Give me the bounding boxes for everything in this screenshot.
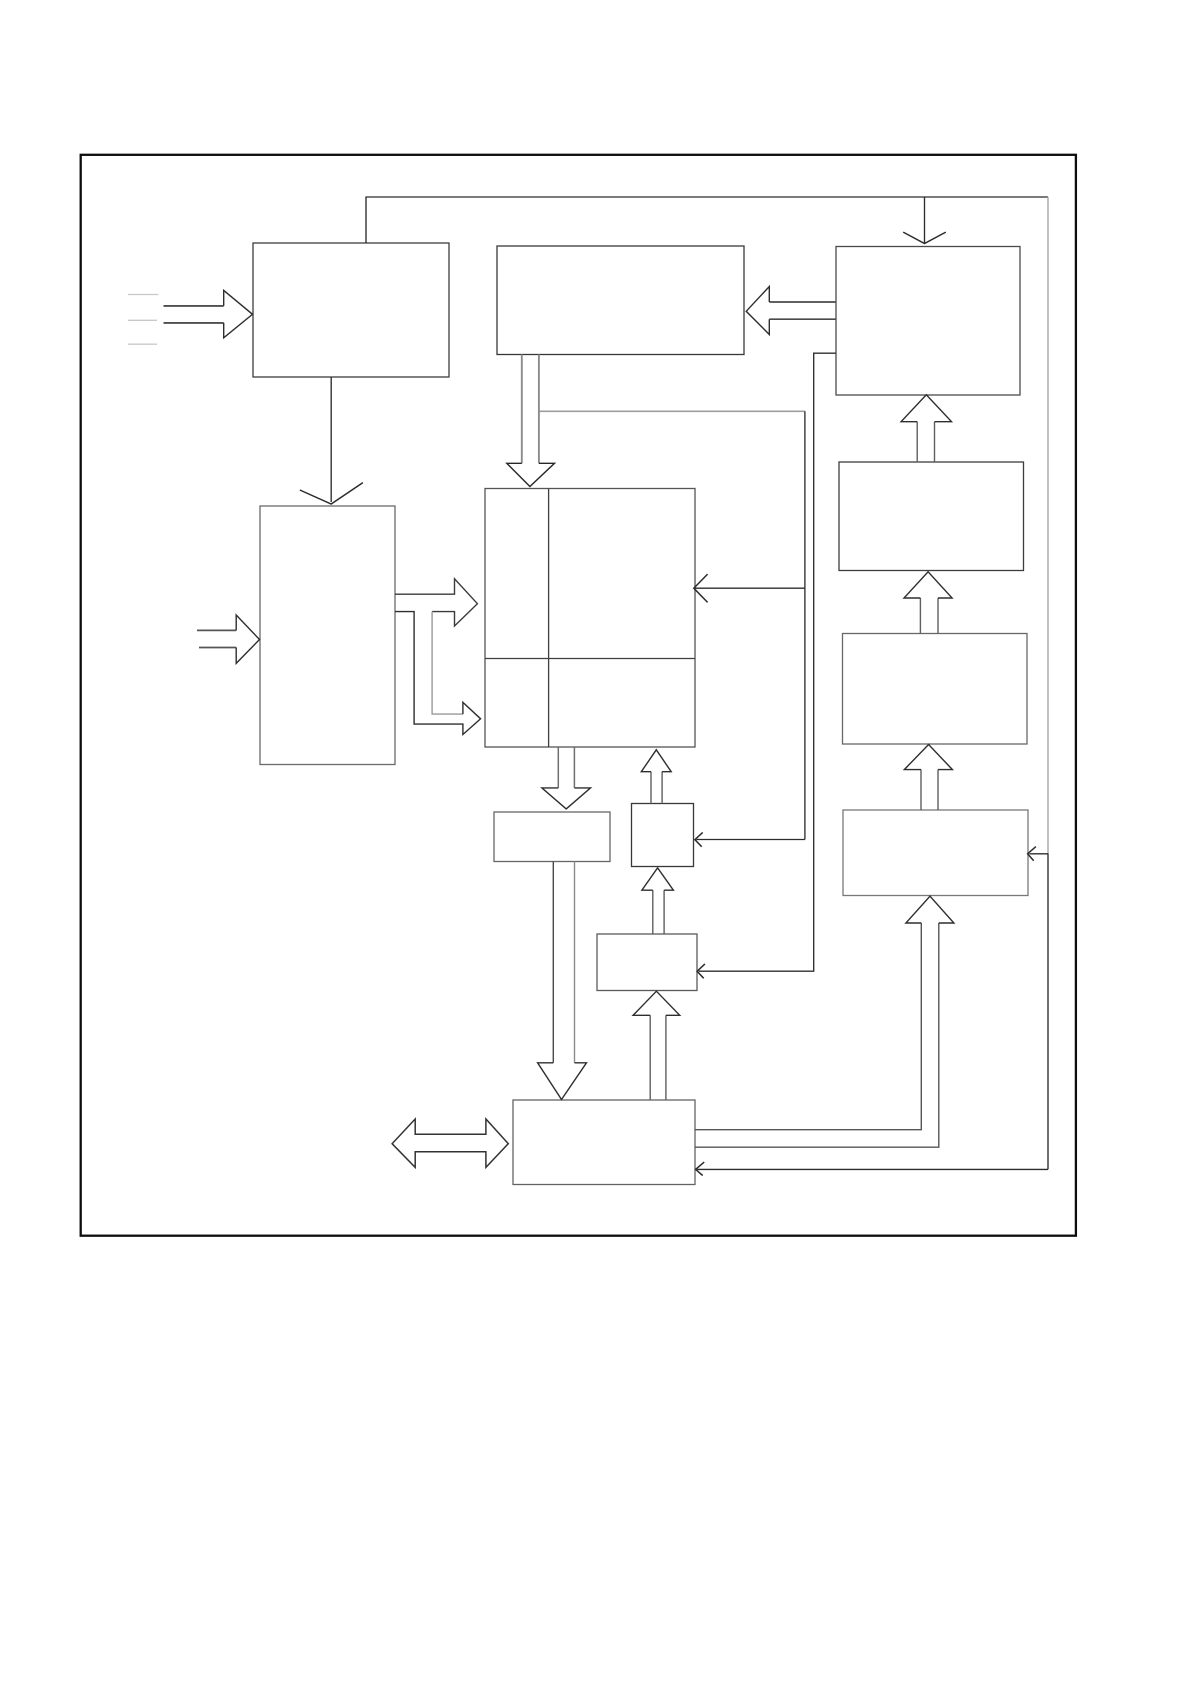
arrow A8 shaft BC up to BB (653, 890, 664, 934)
arrowhead into BC right (697, 964, 705, 978)
arrow A15 head into BD top (538, 1063, 587, 1100)
arrow A5 inner gray duct (432, 612, 463, 715)
wire W4 right feedback lower dark (1047, 853, 1049, 1169)
arrow A9 shaft BD up to BC (650, 1015, 666, 1100)
arrow A3 shaft B3 to B2 (769, 302, 836, 319)
block B5 horizontal divider (485, 658, 695, 660)
arrowhead into B5 right (694, 574, 708, 602)
border frame (81, 155, 1076, 1236)
block B2 top-middle (497, 246, 744, 355)
arrow A3 head into B2 (746, 287, 769, 335)
arrow A10 head into B3 bottom (901, 395, 951, 422)
block BA small (494, 812, 610, 862)
arrowhead into B4 top (300, 483, 363, 504)
block B4 tall-left (260, 506, 395, 765)
wire W2 drop into B3 top (924, 197, 926, 243)
input stub line 3 (128, 343, 157, 345)
block R4 right column (843, 810, 1028, 896)
block B3 top-right (836, 247, 1020, 396)
arrow A4 shaft B2 down to B5 (522, 355, 539, 464)
arrow A5 lower head and outer duct (395, 612, 481, 735)
block B5 vertical divider (548, 489, 550, 748)
arrow A11 head into R2 bottom (904, 572, 952, 598)
arrow A14 double-headed at BD left (392, 1119, 508, 1167)
arrow A7 shaft BB up to B5 (651, 772, 662, 804)
arrow A10 shaft R2 up to B3 (917, 422, 934, 462)
arrow A1 shaft into B1 (164, 306, 224, 323)
arrow A13 duct BD to R4 (695, 923, 939, 1147)
wire W5 branch into R4 (1030, 853, 1049, 855)
arrow A13 head into R4 bottom (906, 896, 954, 923)
input stub line 1 (128, 294, 159, 296)
wire W1 B1 top feedback across top (366, 197, 1048, 243)
wire W10 mid vertical (804, 411, 806, 839)
arrowhead into B3 top (903, 232, 946, 243)
arrowhead into BB right (695, 832, 703, 846)
arrow A2 shaft into B4 (197, 630, 236, 647)
block BB small (632, 804, 694, 867)
arrowhead into R4 right (1028, 847, 1036, 861)
arrow A1 head into B1 (224, 290, 253, 337)
arrow A5 branching B4 to B5 upper part (395, 579, 477, 626)
arrow A9 head into BC bottom (633, 991, 680, 1015)
input stub line 2 (128, 319, 157, 321)
block B5 central quad (485, 489, 695, 748)
arrow A2 head into B4 (236, 615, 259, 663)
block BD bottom (513, 1100, 695, 1185)
block R2 right column (839, 462, 1024, 571)
arrow A11 shaft R3 up to R2 (920, 598, 938, 634)
block R3 right column (843, 634, 1028, 745)
wire W9 gray tap from A4 shaft (539, 410, 805, 412)
arrow A6 head into BA top (542, 788, 591, 809)
wire W3 right feedback upper gray (1047, 197, 1049, 853)
arrow A6 shaft B5 down to BA (558, 747, 574, 788)
block BC small (597, 934, 697, 991)
wire W12 branch into BB right (696, 839, 805, 841)
wire W7 B1 bottom to B4 top (330, 377, 332, 502)
arrow A8 head into BB bottom (642, 868, 674, 890)
arrow A12 shaft R4 up to R3 (921, 770, 938, 810)
arrow A4 head into B5 top (507, 463, 555, 486)
arrow A7 head into B5 bottom (641, 750, 671, 772)
wire W8 B3 left down into BC (699, 353, 836, 971)
arrowhead into BD right (696, 1162, 705, 1175)
block B1 top-left (253, 243, 449, 377)
arrow A15 shaft BA down to BD (553, 862, 574, 1063)
wire W6 bottom feedback into BD (697, 1168, 1048, 1170)
arrow A12 head into R3 bottom (904, 745, 952, 770)
wire W11 branch into B5 right (695, 587, 805, 589)
